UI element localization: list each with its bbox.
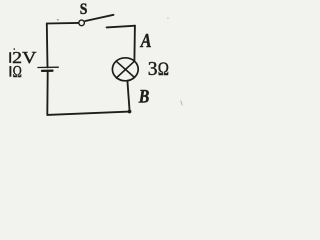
label 1Ω digit 1 <box>9 66 11 77</box>
label 12V digit 1 <box>9 52 11 63</box>
battery long plate <box>38 66 58 68</box>
svg-text:A: A <box>139 30 151 52</box>
wire left lower <box>46 71 48 115</box>
svg-text:Ω: Ω <box>158 60 169 80</box>
wire bottom <box>47 112 129 115</box>
speck above 12V <box>14 48 15 50</box>
battery short plate <box>42 70 53 73</box>
lamp L1 cross <box>116 61 134 78</box>
faint dot right of S <box>167 17 169 19</box>
speck near top wire <box>57 19 59 20</box>
switch S blade <box>85 15 113 21</box>
lamp L1 circle <box>112 58 138 81</box>
svg-text:3: 3 <box>148 59 158 80</box>
junction bottom-right <box>128 110 132 114</box>
svg-text:B: B <box>138 87 149 108</box>
svg-text:Ω: Ω <box>13 62 22 81</box>
wire right upper <box>133 26 136 61</box>
svg-text:S: S <box>80 1 88 18</box>
wire right lower <box>127 81 129 112</box>
faint mark right edge <box>181 101 183 106</box>
switch S circle <box>79 20 85 26</box>
wire top-right segment <box>107 26 135 28</box>
wire top-left segment <box>47 22 79 25</box>
wire left upper <box>46 24 49 68</box>
